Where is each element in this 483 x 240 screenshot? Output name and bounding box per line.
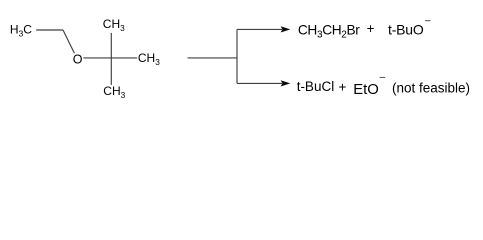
svg-text:+: + xyxy=(339,79,347,94)
svg-text:+: + xyxy=(367,21,375,36)
arrowhead top xyxy=(281,26,291,32)
wire branch vertical xyxy=(236,29,238,83)
wire bond vertical CH3-C-CH3 xyxy=(110,33,112,85)
arrowhead bottom xyxy=(281,80,291,86)
svg-text:t-BuCl: t-BuCl xyxy=(297,79,335,94)
svg-text:O: O xyxy=(73,52,83,66)
wire top arrow shaft xyxy=(237,28,282,30)
wire bond CH2-O xyxy=(63,30,74,53)
svg-text:(not feasible): (not feasible) xyxy=(392,81,470,96)
wire bond O-C(central)-CH3 right xyxy=(83,57,137,59)
wire bond CH3-CH2 xyxy=(36,29,63,31)
wire retrosynthesis stub xyxy=(188,57,238,59)
wire bottom arrow shaft xyxy=(237,82,282,84)
svg-text:EtO: EtO xyxy=(353,82,379,98)
svg-text:–: – xyxy=(380,72,386,83)
svg-text:t-BuO: t-BuO xyxy=(388,22,424,38)
svg-text:–: – xyxy=(425,16,431,27)
